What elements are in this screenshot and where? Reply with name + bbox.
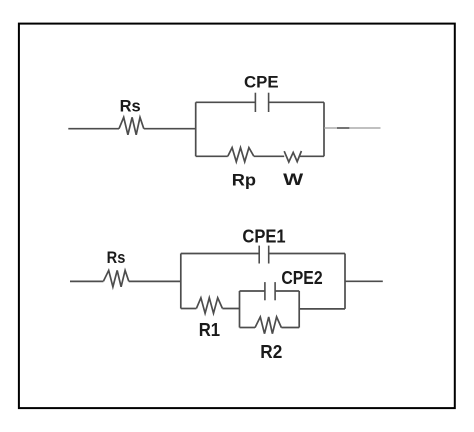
svg-text:CPE2: CPE2 — [281, 268, 322, 288]
svg-text:R2: R2 — [260, 342, 282, 362]
svg-text:Rp: Rp — [232, 171, 256, 190]
svg-text:CPE1: CPE1 — [242, 226, 285, 246]
svg-text:CPE: CPE — [244, 73, 279, 92]
svg-text:Rs: Rs — [107, 248, 126, 267]
svg-text:W: W — [283, 170, 304, 189]
svg-text:R1: R1 — [199, 320, 220, 340]
svg-text:Rs: Rs — [120, 97, 141, 116]
